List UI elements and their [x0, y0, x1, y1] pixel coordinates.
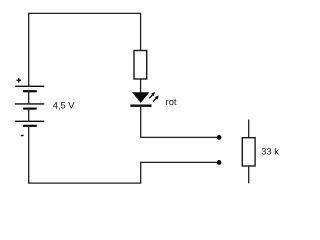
battery B1 cell1 short plate — [23, 90, 37, 92]
LED cathode bar — [130, 105, 151, 107]
svg-text:33 k: 33 k — [261, 147, 279, 157]
battery B1 minus sign — [21, 135, 24, 137]
wire left vertical + top horizontal + down to R1 — [29, 13, 141, 86]
LED D1 triangle (anode) — [132, 92, 149, 103]
terminal dot 2 — [217, 160, 222, 165]
wire LED to terminal dot 1 — [141, 106, 218, 138]
LED light arrow 1 — [149, 92, 155, 98]
terminal dot 1 — [217, 135, 222, 140]
resistor R2 top lead — [248, 120, 250, 138]
battery B1 cell3 short plate — [23, 125, 37, 127]
resistor R2 bottom lead — [248, 166, 250, 183]
battery B1 cell2 short plate — [23, 107, 37, 109]
svg-text:4,5 V: 4,5 V — [53, 100, 76, 110]
resistor R1 — [134, 51, 147, 80]
wire R1 to LED — [140, 79, 142, 93]
svg-text:rot: rot — [166, 97, 177, 107]
battery connector cell1-cell2 — [28, 91, 30, 104]
battery B1 cell3 long plate — [15, 120, 44, 122]
battery connector cell2-cell3 — [28, 109, 30, 122]
LED light arrow 2 — [153, 95, 159, 101]
battery B1 cell1 long plate — [15, 85, 44, 87]
battery B1 plus sign — [17, 78, 21, 82]
resistor R2 (33 k) — [242, 138, 255, 166]
wire battery bottom loop to terminal dot 2 — [29, 126, 218, 183]
battery B1 cell2 long plate — [15, 103, 44, 105]
